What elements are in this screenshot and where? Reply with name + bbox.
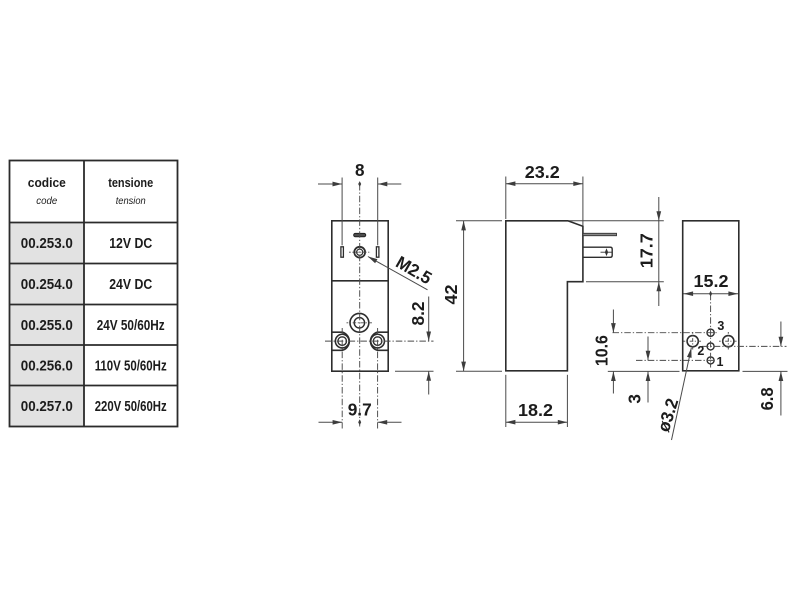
svg-text:17.7: 17.7	[636, 233, 656, 268]
svg-text:00.256.0: 00.256.0	[21, 359, 73, 375]
svg-text:23.2: 23.2	[525, 162, 560, 182]
svg-text:8.2: 8.2	[408, 301, 428, 325]
svg-text:00.255.0: 00.255.0	[21, 318, 73, 334]
svg-text:1: 1	[717, 355, 724, 369]
svg-text:tensione: tensione	[108, 175, 153, 190]
svg-text:110V 50/60Hz: 110V 50/60Hz	[95, 359, 167, 375]
svg-text:code: code	[36, 195, 57, 207]
svg-text:tension: tension	[116, 195, 146, 207]
svg-text:9.7: 9.7	[348, 400, 372, 420]
svg-text:15.2: 15.2	[694, 271, 729, 291]
svg-text:24V DC: 24V DC	[109, 277, 152, 293]
svg-text:10.6: 10.6	[591, 335, 611, 366]
svg-text:12V DC: 12V DC	[109, 236, 152, 252]
svg-text:24V 50/60Hz: 24V 50/60Hz	[97, 318, 165, 334]
svg-text:2: 2	[697, 344, 704, 358]
svg-text:3: 3	[624, 394, 644, 404]
svg-text:6.8: 6.8	[757, 387, 777, 410]
svg-text:18.2: 18.2	[518, 400, 553, 420]
svg-text:3: 3	[717, 319, 724, 333]
svg-text:codice: codice	[28, 175, 66, 190]
svg-text:42: 42	[441, 284, 461, 304]
svg-text:220V 50/60Hz: 220V 50/60Hz	[95, 399, 167, 415]
svg-text:00.257.0: 00.257.0	[21, 399, 73, 415]
svg-text:00.253.0: 00.253.0	[21, 236, 73, 252]
svg-text:00.254.0: 00.254.0	[21, 277, 73, 293]
svg-text:8: 8	[355, 160, 365, 180]
